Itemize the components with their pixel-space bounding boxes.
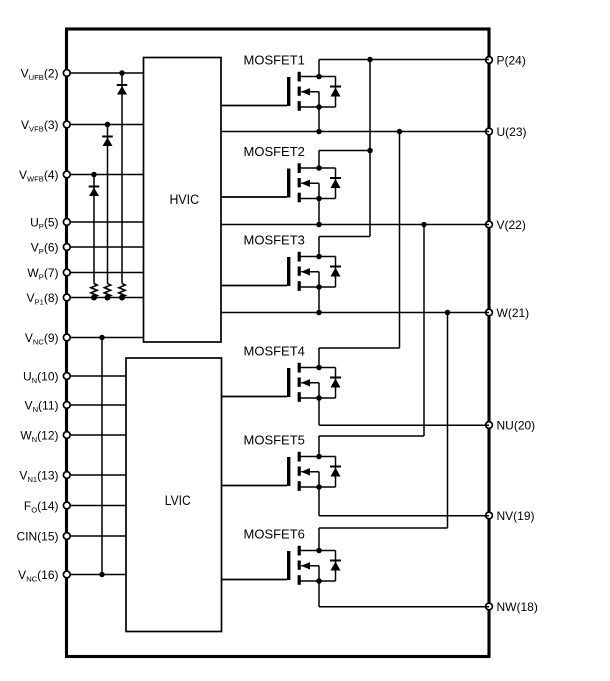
svg-text:WN(12): WN(12) [20,428,58,444]
wire NV line to NV(19) [319,515,489,517]
transistor MOSFET6 [222,526,320,584]
svg-text:HVIC: HVIC [170,192,200,208]
pin VUFB(2) [21,66,144,82]
pin CIN(15) [16,529,126,543]
pin NU(20) [486,418,536,432]
pin VP1(8) [27,291,144,307]
pin VN(11) [25,398,126,414]
wire MOSFET2 drain riser [318,151,320,169]
wire MOSFET2 source drop [318,199,320,225]
pin P(24) [486,53,526,67]
pin NW(18) [486,600,538,614]
svg-text:VP(6): VP(6) [31,240,59,256]
svg-text:VN1(13): VN1(13) [19,468,58,484]
wire MOSFET3 drain riser [318,237,320,257]
wire MOSFET2 drain link [319,150,370,152]
wire MOSFET6 drain to W line [319,313,448,529]
wire MOSFET1 drain riser [318,60,320,77]
wire VNC(9) to VNC(16) [101,338,103,575]
svg-text:U(23): U(23) [497,125,527,139]
LVIC block [126,358,222,632]
junction MOSFET6 source node [316,578,322,584]
pin VNC(9) [25,331,144,347]
resistor R3 [91,284,97,297]
junction MOSFET1 drain node [316,74,322,80]
HVIC block [144,58,222,343]
wire MOSFET5 drain to V line [319,225,424,437]
wire bootstrap branch at x=107.5 [107,125,109,298]
svg-text:NU(20): NU(20) [497,418,536,432]
svg-text:MOSFET6: MOSFET6 [244,526,305,541]
junction MOSFET1 source node [316,104,322,110]
body diode of MOSFET5 [319,457,341,488]
resistor R1 [119,284,125,297]
body diode of MOSFET4 [319,368,341,399]
wire MOSFET5 drain riser [318,436,320,457]
junction MOSFET5 drain node [316,454,322,460]
pin U(23) [486,125,527,139]
svg-text:VN(11): VN(11) [25,398,59,414]
junction U node [316,129,322,135]
pin VP(6) [31,240,144,256]
pin VVFB(3) [21,118,143,134]
svg-text:P(24): P(24) [497,53,526,67]
wire P rail drop to MOSFET2/3 drains [319,60,370,237]
wire V phase line to V(22) [221,224,489,226]
junction V line / MOSFET5 drain [421,222,427,228]
junction MOSFET2 drain tap [367,148,373,154]
transistor MOSFET3 [221,232,319,290]
pin VWFB(4) [19,168,144,184]
bootstrap diode D1 [117,85,128,95]
junction VNC(9) [99,335,105,341]
wire MOSFET3 source drop [318,287,320,313]
junction W line / MOSFET6 drain [445,310,451,316]
wire MOSFET5 source drop [318,487,320,516]
pin UN(10) [23,369,126,385]
svg-text:FO(14): FO(14) [24,499,59,515]
wire bootstrap branch at x=94.0 [93,175,95,298]
junction on VP1 line x=122.0 [119,295,125,301]
wire NU line to NU(20) [319,424,489,426]
body diode of MOSFET1 [319,77,341,108]
svg-text:MOSFET2: MOSFET2 [244,144,305,159]
svg-text:NW(18): NW(18) [497,600,538,614]
wire MOSFET6 drain riser [318,528,320,551]
bootstrap diode D2 [102,137,113,147]
junction at top of branch x=122.0 [119,70,125,76]
resistor R2 [104,284,110,297]
junction at top of branch x=94.0 [91,172,97,178]
svg-text:LVIC: LVIC [165,493,191,509]
bootstrap diode D3 [89,187,100,197]
pin WN(12) [20,428,126,444]
svg-text:MOSFET4: MOSFET4 [244,343,305,358]
svg-text:UN(10): UN(10) [23,369,59,385]
pin VN1(13) [19,468,126,484]
wire MOSFET4 drain riser [318,348,320,368]
junction W node [316,310,322,316]
pin NV(19) [486,509,535,523]
junction MOSFET4 source node [316,395,322,401]
body diode of MOSFET3 [319,257,341,288]
svg-text:WP(7): WP(7) [27,266,58,282]
svg-text:NV(19): NV(19) [497,509,535,523]
pin WP(7) [27,266,143,282]
svg-text:V(22): V(22) [497,218,526,232]
junction V node [316,222,322,228]
package outline box [67,29,490,657]
svg-text:CIN(15): CIN(15) [16,529,58,543]
wire MOSFET1 source drop [318,107,320,132]
svg-text:MOSFET3: MOSFET3 [244,232,305,247]
transistor MOSFET4 [222,343,320,401]
wire MOSFET4 drain to U line [319,132,400,349]
junction MOSFET5 source node [316,484,322,490]
svg-text:W(21): W(21) [497,306,530,320]
junction MOSFET6 drain node [316,548,322,554]
svg-text:MOSFET1: MOSFET1 [244,52,305,67]
wire NW line to NW(18) [319,606,489,608]
junction P rail / drop [367,57,373,63]
junction at top of branch x=107.5 [105,122,111,128]
pin FO(14) [24,499,126,515]
junction MOSFET2 source node [316,196,322,202]
wire MOSFET6 source drop [318,581,320,607]
pin UP(5) [30,215,143,231]
junction on VP1 line x=94.0 [91,295,97,301]
wire bootstrap branch at x=122.0 [121,73,123,298]
junction VNC(16) [99,572,105,578]
svg-text:UP(5): UP(5) [30,215,58,231]
transistor MOSFET5 [222,432,320,490]
pin W(21) [486,306,530,320]
wire P rail to P(24) [319,59,489,61]
junction MOSFET4 drain node [316,365,322,371]
svg-text:VNC(16): VNC(16) [18,568,58,584]
junction on VP1 line x=107.5 [105,295,111,301]
transistor MOSFET1 [221,52,319,110]
wire U phase line to U(23) [221,131,489,133]
pin V(22) [486,218,526,232]
wire W phase line to W(21) [221,312,489,314]
wire MOSFET4 source drop [318,398,320,425]
junction MOSFET3 drain node [316,254,322,260]
pin VNC(16) [18,568,126,584]
body diode of MOSFET6 [319,551,341,582]
transistor MOSFET2 [221,144,319,202]
junction MOSFET2 drain node [316,165,322,171]
junction MOSFET3 source node [316,284,322,290]
body diode of MOSFET2 [319,168,341,199]
svg-text:MOSFET5: MOSFET5 [244,432,305,447]
junction U line / MOSFET4 drain [397,129,403,135]
